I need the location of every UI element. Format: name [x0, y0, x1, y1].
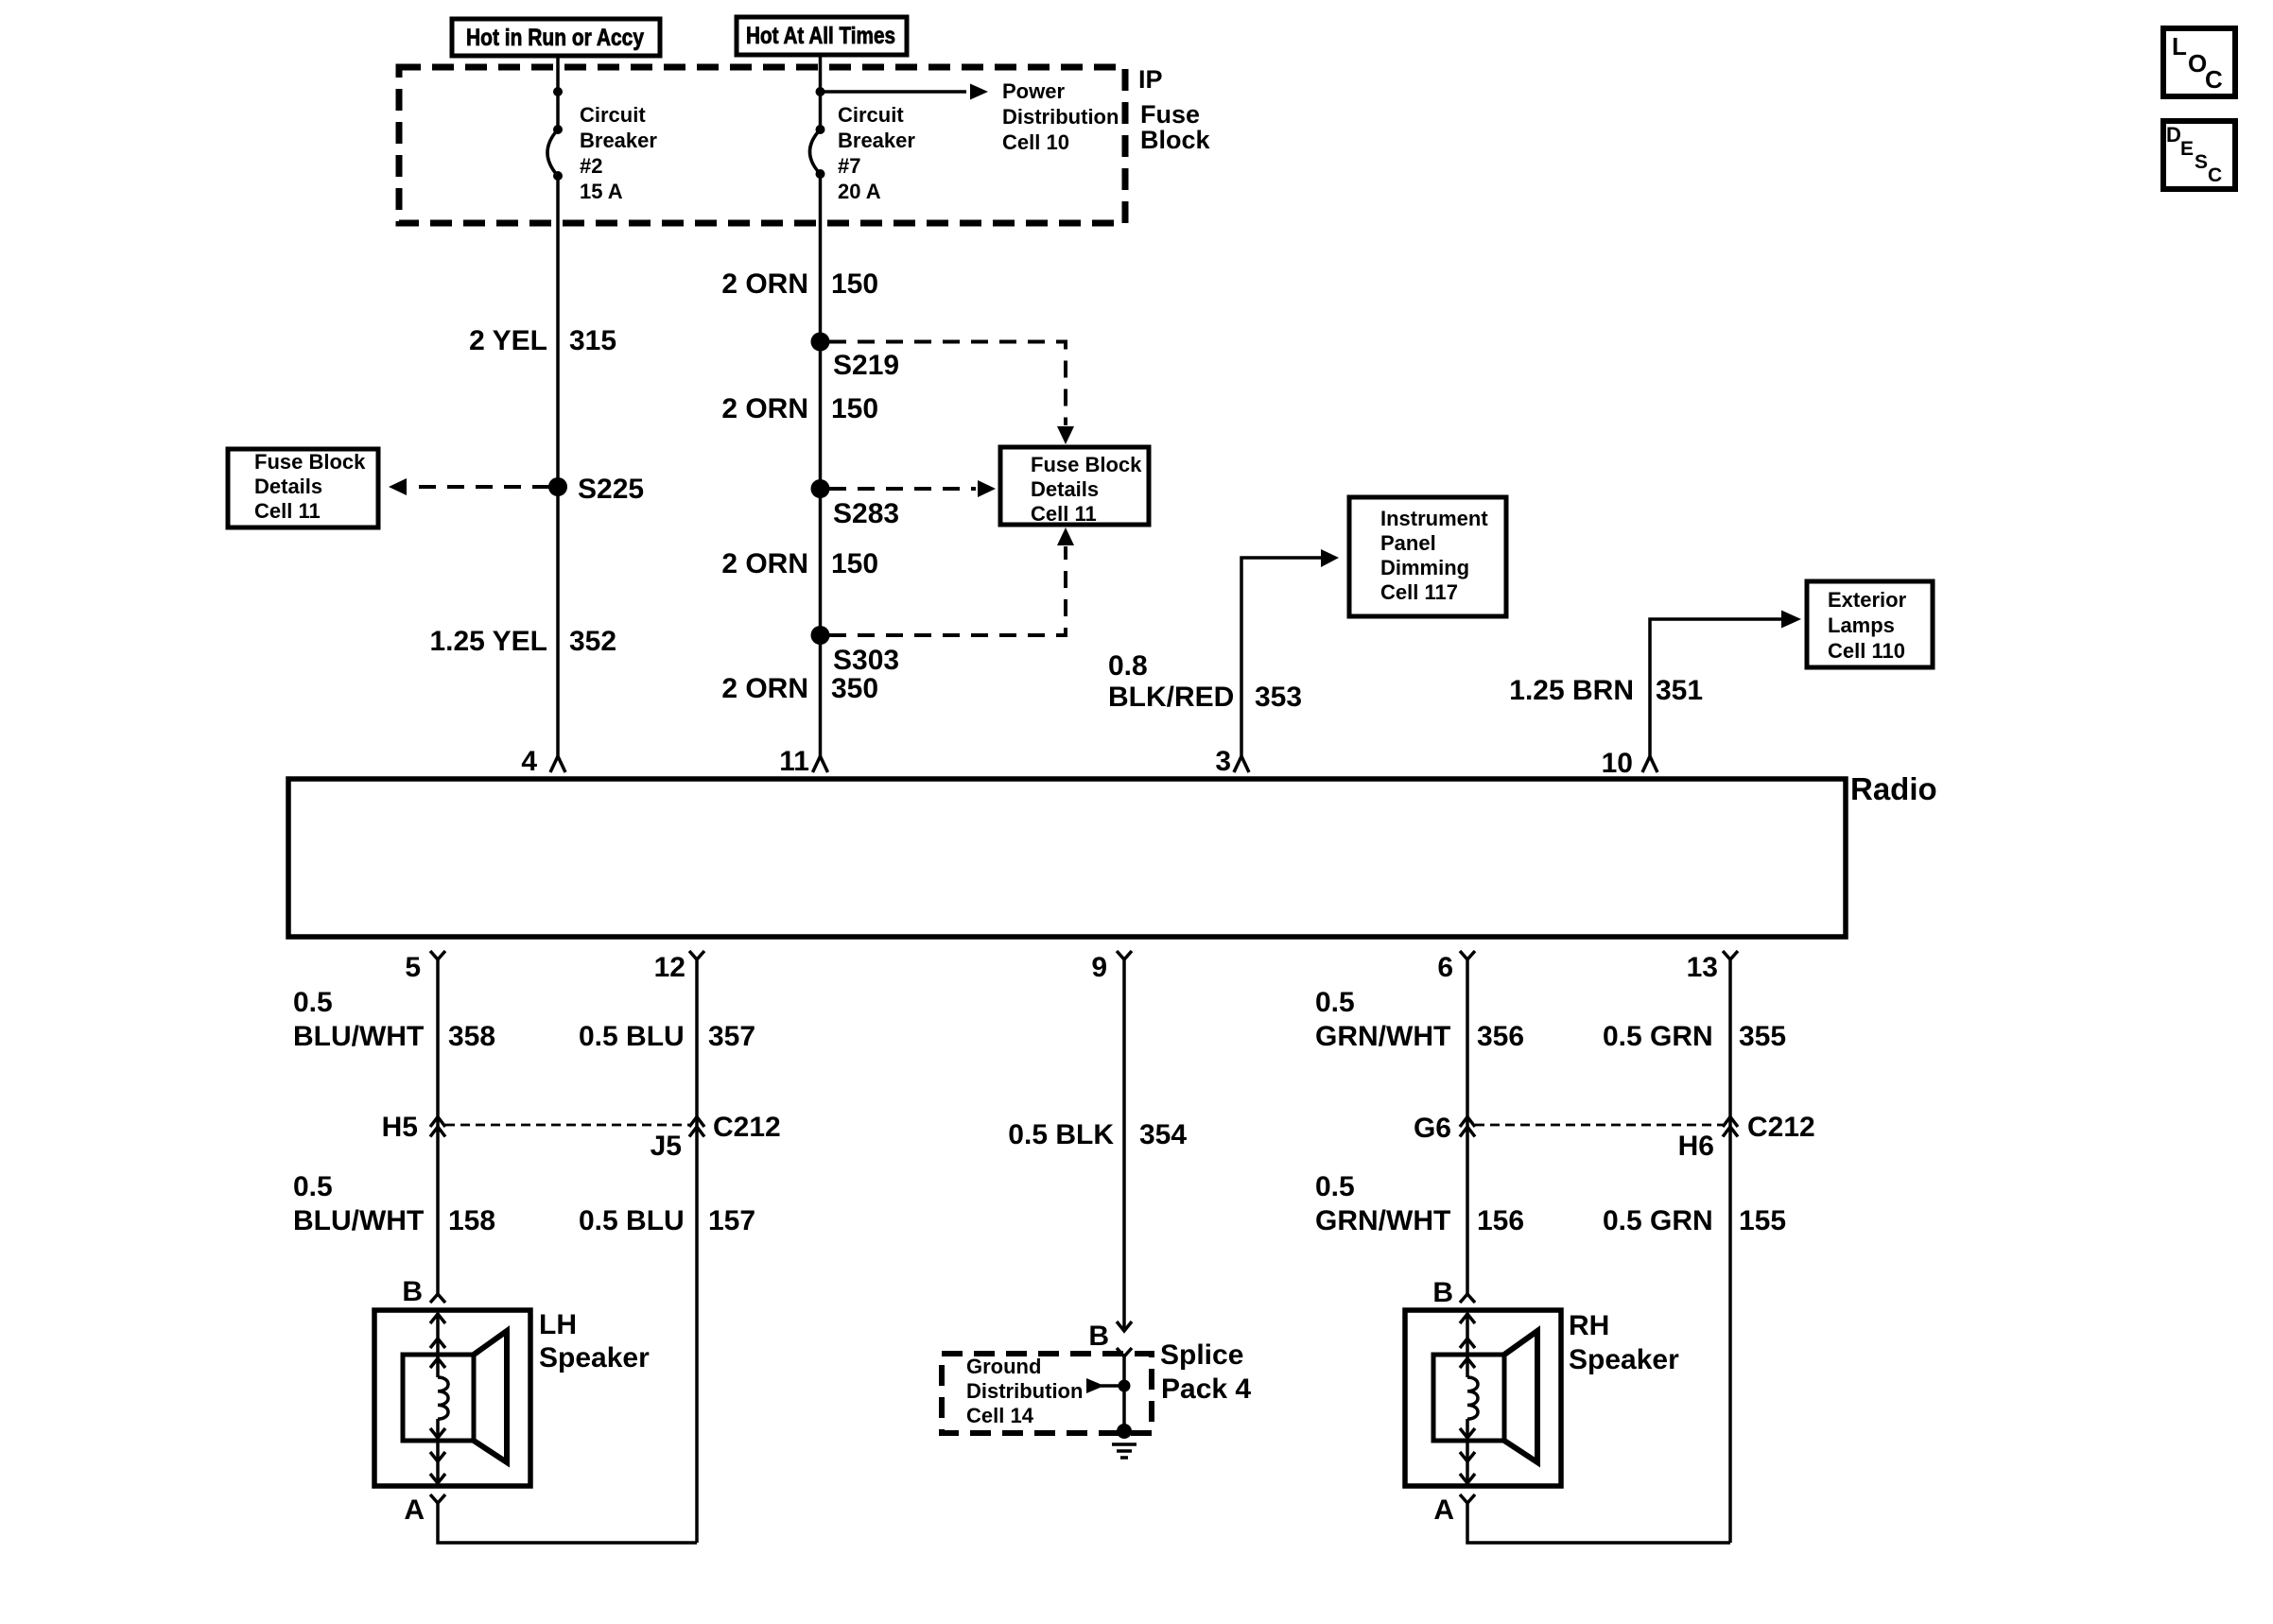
- svg-text:GRN/WHT: GRN/WHT: [1315, 1021, 1450, 1052]
- svg-text:Cell 110: Cell 110: [1828, 639, 1905, 663]
- svg-text:0.5: 0.5: [1315, 1171, 1355, 1202]
- circuit breaker #2 label: [580, 103, 657, 203]
- connector C212 dashed line (left pair): [445, 1124, 689, 1127]
- splice S303 dot: [811, 626, 830, 645]
- LH speaker cone: [474, 1331, 507, 1462]
- svg-text:Details: Details: [254, 475, 322, 498]
- dashed reference from S219 to right Fuse Block Details (over and down): [829, 342, 1066, 426]
- svg-text:S219: S219: [833, 350, 899, 381]
- svg-text:A: A: [1433, 1494, 1454, 1526]
- wire: circuit 358 from radio pin 5 down to H5: [436, 959, 440, 1294]
- LH speaker internal wire: [436, 1313, 440, 1377]
- svg-text:J5: J5: [651, 1131, 682, 1162]
- svg-text:350: 350: [831, 673, 878, 704]
- terminal B fork (RH speaker): [1460, 1294, 1475, 1303]
- pin 12 connector fork: [689, 951, 704, 959]
- svg-text:#7: #7: [838, 154, 860, 178]
- svg-text:358: 358: [448, 1021, 495, 1052]
- svg-text:Breaker: Breaker: [580, 129, 657, 152]
- splice S219 dot: [811, 333, 830, 352]
- Instrument Panel Dimming text: [1380, 507, 1488, 604]
- right Fuse Block Details box: [1000, 447, 1149, 525]
- svg-text:Instrument: Instrument: [1380, 507, 1488, 530]
- RH speaker cone: [1504, 1331, 1537, 1462]
- svg-text:BLU/WHT: BLU/WHT: [293, 1205, 424, 1236]
- pin 9 connector fork: [1117, 951, 1132, 959]
- svg-text:Circuit: Circuit: [580, 103, 646, 127]
- RH speaker entry arrow 2: [1460, 1339, 1475, 1348]
- svg-text:RH: RH: [1569, 1310, 1609, 1341]
- svg-text:Hot in Run or Accy: Hot in Run or Accy: [466, 25, 644, 51]
- svg-text:2 ORN: 2 ORN: [721, 393, 808, 424]
- RH speaker internal wire: [1466, 1313, 1469, 1377]
- arrow right into right Fuse Block Details box: [978, 480, 996, 497]
- Ground Distribution dashed box: [942, 1354, 1152, 1433]
- connector symbol J5 (double chevron): [689, 1117, 704, 1137]
- svg-text:Circuit: Circuit: [838, 103, 904, 127]
- ground distribution arrow to splice: [1101, 1384, 1124, 1388]
- LH speaker entry arrow 1: [430, 1314, 445, 1323]
- LOC reference box: [2163, 28, 2235, 96]
- svg-text:Distribution: Distribution: [966, 1379, 1083, 1403]
- RH speaker exit arrow: [1460, 1452, 1475, 1461]
- svg-text:Cell 10: Cell 10: [1002, 130, 1069, 154]
- terminal B fork (LH speaker): [430, 1294, 445, 1303]
- svg-text:2 ORN: 2 ORN: [721, 548, 808, 579]
- svg-text:Details: Details: [1031, 477, 1099, 501]
- svg-text:0.5: 0.5: [293, 1171, 333, 1202]
- svg-text:GRN/WHT: GRN/WHT: [1315, 1205, 1450, 1236]
- wire: circuit 357 from radio pin 12 down: [695, 959, 699, 1543]
- left Fuse Block Details box: [228, 449, 378, 527]
- svg-text:Cell 11: Cell 11: [254, 499, 321, 523]
- connector symbol G6 (double chevron): [1460, 1117, 1475, 1137]
- circuit breaker #2 terminal dots: [553, 87, 563, 96]
- LH Speaker label: [539, 1309, 650, 1373]
- svg-text:150: 150: [831, 268, 878, 300]
- svg-text:Fuse Block: Fuse Block: [1031, 453, 1142, 476]
- svg-text:C: C: [2208, 164, 2222, 186]
- LH speaker coil (inductor): [438, 1377, 448, 1419]
- arrow down into right Fuse Block Details box: [1057, 426, 1074, 444]
- svg-text:Ground: Ground: [966, 1355, 1041, 1378]
- svg-text:157: 157: [708, 1205, 755, 1236]
- svg-text:H6: H6: [1678, 1131, 1714, 1162]
- RH Speaker box: [1405, 1310, 1561, 1486]
- svg-text:0.8: 0.8: [1108, 650, 1148, 682]
- svg-text:Hot At All Times: Hot At All Times: [746, 23, 895, 49]
- svg-text:B: B: [402, 1276, 423, 1307]
- svg-text:Fuse Block: Fuse Block: [254, 450, 366, 474]
- svg-text:Distribution: Distribution: [1002, 105, 1119, 129]
- svg-text:150: 150: [831, 393, 878, 424]
- svg-text:351: 351: [1656, 675, 1703, 706]
- pin 4 connector fork: [550, 756, 565, 772]
- ground symbol: [1112, 1424, 1136, 1458]
- svg-text:150: 150: [831, 548, 878, 579]
- svg-text:315: 315: [569, 325, 616, 356]
- svg-text:Cell 11: Cell 11: [1031, 502, 1097, 526]
- svg-text:5: 5: [405, 952, 421, 983]
- splice S283 dot: [811, 479, 830, 498]
- svg-text:1.25 YEL: 1.25 YEL: [429, 626, 547, 657]
- LH speaker coil bottom arrow: [430, 1428, 445, 1438]
- svg-text:BLK/RED: BLK/RED: [1108, 682, 1234, 713]
- svg-text:353: 353: [1255, 682, 1302, 713]
- dashed reference from S225 to Fuse Block Details: [408, 485, 549, 489]
- svg-text:352: 352: [569, 626, 616, 657]
- svg-text:Splice: Splice: [1160, 1339, 1243, 1371]
- Ground Distribution text: [966, 1355, 1083, 1427]
- dashed reference from S283 right to Fuse Block Details: [829, 487, 976, 491]
- svg-text:0.5: 0.5: [293, 987, 333, 1018]
- wire: Hot in Run or Accy feed down into fuse block: [556, 56, 560, 130]
- svg-text:L: L: [2172, 32, 2187, 60]
- wire: circuit 352 from S225 down to radio pin 4: [556, 487, 560, 756]
- svg-text:9: 9: [1091, 952, 1107, 983]
- Instrument Panel Dimming box: [1349, 497, 1506, 616]
- svg-text:LH: LH: [539, 1309, 577, 1340]
- svg-text:C212: C212: [1747, 1112, 1815, 1143]
- svg-text:0.5 BLU: 0.5 BLU: [579, 1021, 685, 1052]
- svg-text:0.5 BLK: 0.5 BLK: [1008, 1119, 1114, 1150]
- svg-text:0.5: 0.5: [1315, 987, 1355, 1018]
- svg-text:20 A: 20 A: [838, 180, 881, 203]
- arrow into left Fuse Block Details box: [389, 478, 407, 495]
- svg-text:Pack 4: Pack 4: [1161, 1373, 1251, 1405]
- svg-text:Speaker: Speaker: [1569, 1344, 1679, 1375]
- circuit breaker #7 terminal dots: [816, 87, 825, 96]
- svg-text:11: 11: [779, 746, 809, 777]
- svg-text:Block: Block: [1140, 126, 1211, 154]
- svg-text:156: 156: [1477, 1205, 1524, 1236]
- svg-text:355: 355: [1739, 1021, 1786, 1052]
- svg-text:12: 12: [654, 952, 685, 983]
- connector symbol H6 (double chevron): [1723, 1117, 1738, 1137]
- wire: branch to Power Distribution: [821, 90, 967, 94]
- wire: from LH speaker A around to pin 12 circuit: [438, 1503, 697, 1543]
- svg-text:356: 356: [1477, 1021, 1524, 1052]
- svg-text:D: D: [2166, 123, 2181, 147]
- circuit breaker #7 (arc): [810, 130, 821, 174]
- svg-text:3: 3: [1215, 746, 1231, 777]
- header box: Hot At All Times: [737, 17, 907, 55]
- svg-text:S303: S303: [833, 645, 899, 676]
- arrow up into right Fuse Block Details box: [1057, 527, 1074, 545]
- splice junction dot: [1119, 1380, 1131, 1392]
- svg-text:S225: S225: [578, 474, 644, 505]
- header box: Hot in Run or Accy: [452, 19, 660, 56]
- wire: circuit 354 from radio pin 9 down to splice pack: [1122, 959, 1126, 1331]
- RH Speaker label: [1569, 1310, 1679, 1375]
- svg-text:357: 357: [708, 1021, 755, 1052]
- svg-text:Lamps: Lamps: [1828, 613, 1895, 637]
- svg-text:10: 10: [1602, 748, 1633, 779]
- svg-text:6: 6: [1437, 952, 1453, 983]
- svg-text:0.5 GRN: 0.5 GRN: [1603, 1205, 1713, 1236]
- svg-text:Cell 117: Cell 117: [1380, 580, 1458, 604]
- svg-text:4: 4: [521, 746, 537, 777]
- IP Fuse Block dashed box: [399, 67, 1125, 223]
- RH speaker coil (inductor): [1467, 1377, 1478, 1419]
- svg-text:G6: G6: [1414, 1113, 1451, 1144]
- svg-text:H5: H5: [382, 1112, 418, 1143]
- svg-text:Dimming: Dimming: [1380, 556, 1469, 579]
- circuit breaker #2 (arc): [547, 130, 558, 176]
- splice S225 dot: [548, 477, 567, 496]
- svg-text:Panel: Panel: [1380, 531, 1436, 555]
- Splice Pack 4 label: [1160, 1339, 1251, 1405]
- svg-text:S: S: [2195, 151, 2208, 173]
- LH speaker entry arrow 2: [430, 1339, 445, 1348]
- wire: circuit 150 from breaker #7 down to radio pin 11: [819, 174, 823, 756]
- svg-text:354: 354: [1139, 1119, 1187, 1150]
- Power Distribution Cell 10 label: [1002, 79, 1119, 154]
- svg-text:C: C: [2205, 65, 2223, 94]
- wire inside splice pack: [1122, 1356, 1126, 1429]
- svg-text:B: B: [1088, 1321, 1109, 1352]
- terminal B fork (splice): [1117, 1348, 1132, 1356]
- wire: circuit 351 from radio pin 10 up and right to Exterior Lamps: [1650, 619, 1783, 756]
- DESC reference box: [2163, 121, 2235, 189]
- wire: Hot At All Times feed down into fuse block: [819, 55, 823, 130]
- svg-text:Cell 14: Cell 14: [966, 1404, 1034, 1427]
- wire: circuit 356 from radio pin 6 down to G6: [1466, 959, 1469, 1294]
- svg-text:IP: IP: [1138, 65, 1163, 94]
- Radio box: [288, 779, 1846, 937]
- svg-text:2 YEL: 2 YEL: [469, 325, 547, 356]
- wire: circuit 315 from breaker #2 down to S225: [556, 176, 560, 487]
- pin 6 connector fork: [1460, 951, 1475, 959]
- dashed reference from S303 to right Fuse Block Details (over and up): [829, 546, 1066, 635]
- svg-text:13: 13: [1687, 952, 1718, 983]
- RH speaker box-bottom arrow: [1460, 1474, 1475, 1483]
- svg-text:Exterior: Exterior: [1828, 588, 1907, 612]
- Exterior Lamps text: [1828, 588, 1907, 663]
- svg-text:0.5 GRN: 0.5 GRN: [1603, 1021, 1713, 1052]
- svg-text:B: B: [1432, 1277, 1453, 1308]
- Exterior Lamps box: [1807, 581, 1933, 667]
- wire: circuit 353 from radio pin 3 up and right to Instrument Panel Dimming: [1241, 558, 1323, 756]
- arrow into Exterior Lamps box: [1781, 611, 1801, 629]
- LH speaker coil top arrow: [430, 1358, 445, 1368]
- RH speaker coil bottom arrow: [1460, 1428, 1475, 1438]
- svg-text:Speaker: Speaker: [539, 1342, 650, 1373]
- circuit breaker #7 label: [838, 103, 915, 203]
- RH speaker coil top arrow: [1460, 1358, 1475, 1368]
- RH speaker voice-coil box: [1433, 1355, 1504, 1441]
- terminal A fork (LH speaker): [430, 1494, 445, 1503]
- svg-text:155: 155: [1739, 1205, 1786, 1236]
- svg-text:E: E: [2180, 138, 2194, 160]
- svg-text:C212: C212: [713, 1112, 781, 1143]
- svg-text:S283: S283: [833, 498, 899, 529]
- arrow into Instrument Panel Dimming box: [1321, 549, 1339, 567]
- svg-text:2 ORN: 2 ORN: [721, 673, 808, 704]
- left Fuse Block Details text: [254, 450, 366, 523]
- LH speaker exit arrow: [430, 1452, 445, 1461]
- svg-text:1.25 BRN: 1.25 BRN: [1509, 675, 1634, 706]
- pin 10 connector fork: [1642, 756, 1657, 772]
- svg-text:BLU/WHT: BLU/WHT: [293, 1021, 424, 1052]
- svg-text:#2: #2: [580, 154, 602, 178]
- IP Fuse Block label: [1138, 65, 1211, 154]
- wire: circuit 355 from radio pin 13 down: [1728, 959, 1732, 1543]
- LH speaker box-bottom arrow: [430, 1474, 445, 1483]
- pin 3 connector fork: [1234, 756, 1249, 772]
- LH Speaker box: [374, 1310, 530, 1486]
- svg-text:Radio: Radio: [1850, 771, 1937, 806]
- wire arrowhead into splice pack: [1117, 1322, 1132, 1331]
- LH speaker voice-coil box: [403, 1355, 474, 1441]
- terminal A fork (RH speaker): [1460, 1494, 1475, 1503]
- svg-text:Fuse: Fuse: [1140, 100, 1200, 129]
- svg-text:A: A: [404, 1494, 425, 1526]
- wire: from RH speaker A around to pin 13 circuit: [1467, 1503, 1730, 1543]
- arrow into Power Distribution: [970, 84, 988, 100]
- svg-text:158: 158: [448, 1205, 495, 1236]
- pin 11 connector fork: [813, 756, 828, 772]
- svg-text:Power: Power: [1002, 79, 1065, 103]
- svg-text:0.5 BLU: 0.5 BLU: [579, 1205, 685, 1236]
- svg-text:Breaker: Breaker: [838, 129, 915, 152]
- right Fuse Block Details text: [1031, 453, 1142, 526]
- RH speaker entry arrow 1: [1460, 1314, 1475, 1323]
- svg-text:15 A: 15 A: [580, 180, 623, 203]
- connector symbol H5 (double chevron): [430, 1117, 445, 1137]
- pin 5 connector fork: [430, 951, 445, 959]
- connector C212 dashed line (right pair): [1475, 1124, 1723, 1127]
- svg-text:2 ORN: 2 ORN: [721, 268, 808, 300]
- pin 13 connector fork: [1723, 951, 1738, 959]
